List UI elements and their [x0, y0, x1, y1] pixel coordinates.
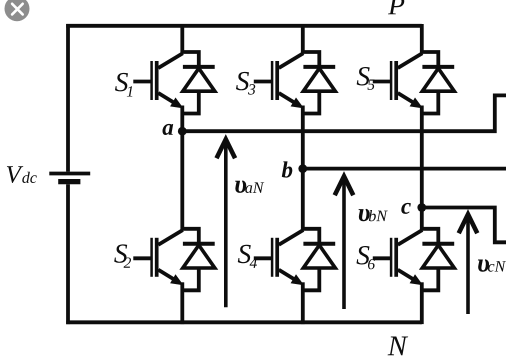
battery negative plate	[58, 179, 80, 184]
IGBT S2 emitter arrow head	[170, 274, 183, 285]
battery positive plate	[49, 172, 90, 176]
v_aN arrow shaft	[224, 142, 228, 307]
v_cN arrow shaft	[466, 217, 470, 314]
diode D3 triangle	[303, 68, 335, 91]
IGBT S2 emitter lead	[158, 270, 176, 281]
IGBT S5 gate bar	[390, 61, 393, 100]
bottom bus N wire	[66, 320, 422, 324]
IGBT S5 gate lead	[373, 80, 391, 84]
node c label	[401, 203, 411, 214]
voltage label vcN	[478, 259, 506, 271]
IGBT S3 body bar	[275, 61, 279, 100]
v_bN arrow shaft	[342, 179, 346, 309]
switch label S3	[236, 72, 255, 95]
IGBT S5 collector lead	[398, 53, 423, 68]
IGBT S3 collector lead	[279, 53, 304, 68]
IGBT S4 collector lead	[279, 230, 304, 245]
voltage label vaN	[235, 180, 264, 193]
voltage label vbN	[359, 209, 388, 221]
leg 1 lower rail	[180, 282, 184, 324]
diode D1 top connector	[181, 52, 199, 69]
diode D4 triangle	[303, 245, 335, 268]
diode D2 triangle	[183, 245, 215, 268]
IGBT S5 emitter lead	[398, 93, 416, 104]
IGBT S6 gate bar	[390, 238, 393, 277]
leg 3 lower rail	[420, 282, 424, 324]
IGBT S1 gate bar	[150, 61, 153, 100]
switch label S6	[357, 246, 376, 269]
IGBT S6 gate lead	[373, 256, 391, 260]
IGBT S1 collector lead	[158, 53, 183, 68]
left source wire lower	[66, 184, 70, 324]
leg 2 lower rail	[301, 282, 305, 324]
diode D5 top connector	[420, 52, 438, 69]
v_cN arrow head	[459, 214, 478, 233]
v_aN arrow head	[217, 139, 236, 158]
node N label	[388, 337, 409, 356]
IGBT S4 gate lead	[254, 256, 271, 260]
source label Vdc	[7, 166, 37, 183]
diode D3 bottom connector	[301, 91, 319, 113]
node c junction dot	[417, 203, 426, 212]
IGBT S3 gate lead	[254, 80, 271, 84]
diode D6 bottom connector	[420, 268, 438, 290]
switch label S4	[238, 245, 257, 268]
IGBT S4 body bar	[275, 238, 279, 277]
phase b output wire	[303, 167, 506, 171]
IGBT S5 emitter arrow head	[410, 98, 423, 109]
diode D3 cathode bar	[303, 65, 335, 69]
switch label S1	[115, 73, 132, 97]
IGBT S1 emitter arrow head	[170, 98, 183, 109]
IGBT S3 gate bar	[271, 61, 274, 100]
IGBT S1 gate lead	[133, 80, 151, 84]
diode D5 bottom connector	[420, 91, 438, 113]
IGBT S3 emitter arrow head	[291, 98, 304, 109]
IGBT S1 emitter lead	[158, 93, 176, 104]
diode D2 bottom connector	[181, 268, 199, 290]
IGBT S5 body bar	[394, 61, 398, 100]
IGBT S2 collector lead	[158, 230, 183, 245]
node a label	[162, 124, 173, 135]
IGBT S3 emitter lead	[279, 93, 297, 104]
close button circle	[5, 0, 30, 21]
switch label S5	[357, 67, 375, 90]
diode D6 top connector	[420, 229, 438, 246]
IGBT S6 emitter arrow head	[410, 274, 423, 285]
leg 2 middle rail	[301, 106, 305, 231]
IGBT S1 body bar	[155, 61, 159, 100]
IGBT S4 emitter lead	[279, 270, 297, 281]
close button X	[12, 4, 23, 15]
leg 2 upper rail	[301, 24, 305, 53]
diode D1 triangle	[183, 68, 215, 91]
diode D1 bottom connector	[181, 91, 199, 113]
node P label	[388, 0, 404, 14]
node b junction dot	[298, 164, 307, 173]
IGBT S6 emitter lead	[398, 270, 416, 281]
IGBT S4 emitter arrow head	[291, 274, 304, 285]
phase c output wire	[422, 208, 506, 243]
IGBT S2 gate lead	[133, 256, 151, 260]
leg 3 upper rail	[420, 24, 424, 53]
diode D1 cathode bar	[183, 65, 215, 69]
top bus P wire	[66, 24, 422, 28]
IGBT S4 gate bar	[271, 238, 274, 277]
leg 1 middle rail	[180, 106, 184, 231]
diode D2 cathode bar	[183, 242, 215, 246]
diode D5 cathode bar	[422, 65, 454, 69]
diode D6 triangle	[422, 245, 454, 268]
diode D4 cathode bar	[303, 242, 335, 246]
diode D5 triangle	[422, 68, 454, 91]
IGBT S6 body bar	[394, 238, 398, 277]
IGBT S2 body bar	[155, 238, 159, 277]
phase a output wire	[182, 95, 506, 131]
diode D2 top connector	[181, 229, 199, 246]
switch label S2	[114, 244, 131, 267]
v_bN arrow head	[335, 176, 354, 195]
left source wire upper	[66, 24, 70, 172]
leg 3 middle rail	[420, 106, 424, 231]
node b label	[282, 161, 293, 177]
node a junction dot	[178, 127, 187, 136]
leg 1 upper rail	[180, 24, 184, 53]
diode D4 bottom connector	[301, 268, 319, 290]
diode D3 top connector	[301, 52, 319, 69]
IGBT S6 collector lead	[398, 230, 423, 245]
diode D4 top connector	[301, 229, 319, 246]
diode D6 cathode bar	[422, 242, 454, 246]
IGBT S2 gate bar	[150, 238, 153, 277]
